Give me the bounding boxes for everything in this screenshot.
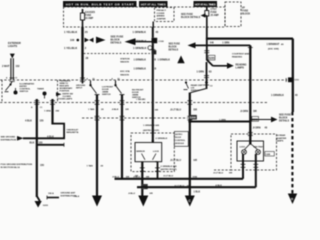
svg-text:.8 ORN: .8 ORN bbox=[240, 110, 248, 113]
svg-text:SWITCH: SWITCH bbox=[102, 94, 111, 96]
svg-text:(EXC S/W): (EXC S/W) bbox=[268, 48, 279, 50]
svg-text:1 ORN: 1 ORN bbox=[222, 42, 229, 44]
svg-text:.8 LT BLU: .8 LT BLU bbox=[163, 175, 173, 177]
svg-text:DETAILS: DETAILS bbox=[111, 41, 122, 45]
svg-text:QUARTER: QUARTER bbox=[276, 137, 287, 140]
svg-text:S208: S208 bbox=[190, 116, 197, 120]
svg-text:10 AMP: 10 AMP bbox=[85, 17, 94, 20]
svg-text:1 GRA: 1 GRA bbox=[44, 110, 51, 113]
svg-text:WAGON: WAGON bbox=[120, 73, 129, 76]
svg-text:1 ORN: 1 ORN bbox=[197, 71, 205, 74]
svg-text:2 ORN/BLK: 2 ORN/BLK bbox=[156, 138, 168, 140]
svg-text:DETAILS: DETAILS bbox=[169, 49, 179, 52]
svg-text:SWITCH: SWITCH bbox=[191, 90, 200, 92]
svg-text:BLK: BLK bbox=[30, 142, 35, 145]
svg-text:HOT AT ALL TIMES: HOT AT ALL TIMES bbox=[141, 3, 166, 7]
svg-text:.8 BLU: .8 BLU bbox=[128, 193, 135, 195]
svg-text:155: 155 bbox=[40, 120, 45, 123]
svg-text:.8 LT BLU: .8 LT BLU bbox=[170, 159, 181, 162]
svg-text:1 ORN/BLK: 1 ORN/BLK bbox=[133, 31, 147, 34]
svg-text:S205: S205 bbox=[209, 57, 215, 60]
svg-text:.8 BLU: .8 BLU bbox=[133, 176, 140, 178]
svg-text:ASTRO: ASTRO bbox=[175, 133, 182, 136]
svg-text:P100 GROUND DISTRIBUTION: P100 GROUND DISTRIBUTION bbox=[1, 164, 33, 166]
svg-text:1 BLK: 1 BLK bbox=[194, 192, 201, 194]
svg-text:1 ORN/BLK: 1 ORN/BLK bbox=[134, 60, 147, 62]
svg-text:GAUGES: GAUGES bbox=[85, 11, 95, 14]
svg-text:1 BRN/WHT: 1 BRN/WHT bbox=[267, 44, 280, 46]
svg-text:(ASTRO ROOF): (ASTRO ROOF) bbox=[143, 129, 159, 132]
svg-text:100: 100 bbox=[70, 38, 75, 42]
svg-text:1 ORN/BLK 645: 1 ORN/BLK 645 bbox=[143, 124, 160, 127]
svg-text:C100: C100 bbox=[159, 41, 165, 43]
svg-text:4 BLK: 4 BLK bbox=[47, 135, 54, 138]
svg-text:LOCK: LOCK bbox=[153, 151, 159, 153]
svg-text:1 ORN/BLK: 1 ORN/BLK bbox=[158, 60, 171, 62]
svg-text:LUGG: LUGG bbox=[240, 147, 246, 149]
svg-text:1 ORN/BLK: 1 ORN/BLK bbox=[271, 94, 284, 97]
svg-text:WAGON: WAGON bbox=[120, 61, 129, 64]
svg-text:LIGHTS: LIGHTS bbox=[8, 45, 17, 48]
svg-text:1 ORN/BLK: 1 ORN/BLK bbox=[133, 40, 147, 43]
svg-text:TIMER: TIMER bbox=[37, 88, 44, 90]
svg-text:STATION: STATION bbox=[120, 58, 130, 61]
svg-text:1 YEL/BLK: 1 YEL/BLK bbox=[64, 46, 77, 50]
svg-text:ROOF: ROOF bbox=[175, 137, 182, 139]
svg-text:BLOCK DETAILS: BLOCK DETAILS bbox=[181, 16, 201, 19]
svg-text:COURTESY AND: COURTESY AND bbox=[232, 53, 250, 56]
svg-text:11: 11 bbox=[15, 78, 17, 80]
svg-text:2 ORN/BLK 645: 2 ORN/BLK 645 bbox=[161, 165, 178, 168]
svg-text:HR: HR bbox=[194, 159, 198, 162]
svg-text:BLOCK: BLOCK bbox=[242, 14, 251, 16]
svg-text:EXC STA: EXC STA bbox=[120, 70, 130, 73]
svg-text:.8 LT BLU: .8 LT BLU bbox=[174, 185, 184, 187]
svg-text:4 BLK: 4 BLK bbox=[25, 120, 32, 123]
svg-text:DR: DR bbox=[253, 110, 257, 113]
svg-text:SWITCH: SWITCH bbox=[20, 91, 29, 93]
svg-text:1 YEL/BLK: 1 YEL/BLK bbox=[64, 30, 77, 34]
svg-text:.8 BLK: .8 BLK bbox=[112, 109, 119, 111]
svg-text:HR: HR bbox=[187, 185, 191, 187]
svg-text:SEE FUSE: SEE FUSE bbox=[169, 44, 181, 46]
svg-text:C210: C210 bbox=[294, 79, 299, 81]
svg-text:GROUND ANT: GROUND ANT bbox=[61, 192, 76, 195]
svg-text:CONTROL: CONTROL bbox=[175, 140, 186, 142]
svg-text:DR: DR bbox=[194, 109, 198, 112]
svg-text:D1: D1 bbox=[93, 78, 95, 80]
svg-text:.8 ORN: .8 ORN bbox=[253, 127, 261, 130]
svg-text:MODULE: MODULE bbox=[175, 143, 184, 145]
svg-text:BERLINETTA: BERLINETTA bbox=[67, 131, 79, 134]
svg-text:DR: DR bbox=[126, 109, 130, 111]
svg-text:DR: DR bbox=[126, 176, 130, 178]
svg-text:1 TAN: 1 TAN bbox=[88, 108, 95, 111]
svg-text:COVER: COVER bbox=[157, 13, 165, 15]
svg-text:1 ORN: 1 ORN bbox=[219, 119, 226, 121]
svg-text:I/P: I/P bbox=[242, 8, 245, 10]
svg-text:150: 150 bbox=[40, 164, 45, 167]
svg-text:W DOME LAMPS: W DOME LAMPS bbox=[57, 98, 73, 101]
svg-text:G201: G201 bbox=[43, 205, 49, 207]
svg-text:HOT AT ALL TIMES: HOT AT ALL TIMES bbox=[195, 3, 216, 7]
svg-text:1 TAN 4R2: 1 TAN 4R2 bbox=[136, 98, 145, 101]
svg-text:READING: READING bbox=[232, 56, 242, 59]
svg-text:HR: HR bbox=[229, 172, 233, 174]
svg-text:1 ORN/BLK: 1 ORN/BLK bbox=[134, 69, 147, 71]
svg-text:FUSE: FUSE bbox=[211, 12, 218, 14]
svg-text:INPUT: INPUT bbox=[76, 88, 83, 90]
svg-text:1 ORN/BLK: 1 ORN/BLK bbox=[133, 47, 147, 50]
svg-text:JUMPER: JUMPER bbox=[157, 18, 167, 20]
svg-text:1 TAN: 1 TAN bbox=[87, 164, 94, 167]
svg-text:FUSE: FUSE bbox=[85, 15, 92, 17]
svg-text:DETAILS: DETAILS bbox=[279, 120, 289, 123]
svg-text:.8 BLU: .8 BLU bbox=[112, 176, 119, 178]
svg-text:ILLUMINATED: ILLUMINATED bbox=[20, 82, 35, 85]
svg-text:2 WHT: 2 WHT bbox=[2, 65, 10, 68]
svg-text:150 A: 150 A bbox=[48, 192, 54, 195]
svg-text:POSITION: POSITION bbox=[60, 91, 70, 93]
svg-text:IN SECTION 8A-14: IN SECTION 8A-14 bbox=[1, 166, 21, 169]
svg-text:(ASTRO ROOF): (ASTRO ROOF) bbox=[161, 168, 177, 171]
svg-text:.8 LT BLU: .8 LT BLU bbox=[213, 172, 223, 174]
svg-text:SEE GROUND: SEE GROUND bbox=[1, 137, 16, 139]
svg-text:ARMED: ARMED bbox=[157, 15, 165, 18]
svg-text:25 AMP: 25 AMP bbox=[211, 14, 220, 17]
svg-text:BLOCK: BLOCK bbox=[169, 47, 178, 49]
svg-text:FUSE: FUSE bbox=[242, 11, 249, 13]
svg-text:LH REAR: LH REAR bbox=[276, 134, 286, 137]
svg-text:LAMPS: LAMPS bbox=[276, 139, 284, 142]
svg-text:1 BLK: 1 BLK bbox=[74, 196, 80, 198]
svg-text:PRIVACY: PRIVACY bbox=[157, 9, 167, 12]
svg-text:LAMPS: LAMPS bbox=[236, 67, 245, 70]
svg-text:DISTRIBUTION: DISTRIBUTION bbox=[1, 139, 17, 141]
svg-text:.8 LT BLU: .8 LT BLU bbox=[170, 109, 181, 112]
svg-text:D1: D1 bbox=[118, 78, 120, 80]
svg-text:152: 152 bbox=[16, 65, 21, 68]
svg-text:HR: HR bbox=[150, 193, 154, 195]
svg-text:CTSY: CTSY bbox=[211, 9, 218, 11]
svg-text:MIRROR: MIRROR bbox=[136, 151, 145, 153]
svg-text:HR: HR bbox=[146, 176, 150, 178]
svg-text:HOT IN RUN, BULB TEST OR START: HOT IN RUN, BULB TEST OR START bbox=[66, 3, 134, 7]
svg-text:4 BLK: 4 BLK bbox=[216, 184, 223, 187]
